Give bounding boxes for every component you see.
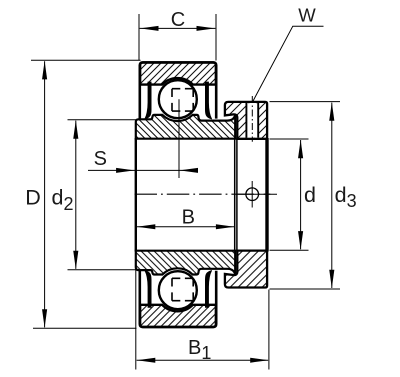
collar lower section: [225, 251, 267, 288]
centerline: [135, 193, 271, 195]
arrowhead C right: [197, 26, 216, 31]
arrowhead C left: [140, 26, 159, 31]
svg-text:d: d: [304, 183, 316, 207]
dimension d2: [68, 120, 137, 270]
svg-text:S: S: [94, 148, 107, 170]
arrowhead d3 top: [329, 102, 334, 121]
collar upper section: [225, 102, 267, 139]
arrowhead B left: [137, 224, 156, 229]
outer ring upper section: [140, 62, 216, 84]
dimension d: [270, 139, 309, 250]
svg-text:B: B: [182, 206, 195, 228]
dimension B1: [136, 269, 269, 370]
svg-text:D: D: [25, 185, 41, 209]
arrowhead D top: [42, 61, 47, 80]
collar recess face through bore: [236, 138, 238, 252]
collar right face through bore: [265, 138, 268, 252]
arrowhead B1 left: [137, 358, 156, 363]
arrowhead S right: [180, 168, 199, 173]
dimension d3: [270, 102, 341, 289]
arrowhead d3 bottom: [329, 270, 334, 289]
set screw channel: [246, 103, 259, 137]
arrowhead d bottom: [298, 231, 303, 250]
arrowhead S left: [116, 168, 135, 173]
dimension B: [137, 226, 235, 228]
arrowhead d top: [298, 140, 303, 159]
ball, seals, faces (bottom): [140, 270, 216, 327]
inner ring upper section: [136, 115, 235, 139]
svg-text:C: C: [171, 9, 185, 31]
arrowhead D bottom: [42, 309, 47, 328]
inner ring right face through bore: [234, 138, 236, 252]
arrowhead d2 bottom: [73, 251, 78, 269]
dimension C: [139, 14, 216, 61]
svg-text:W: W: [298, 4, 316, 25]
ball centre plane line (S extension): [178, 99, 180, 178]
arrowhead d2 top: [73, 120, 78, 139]
arrowhead B1 right: [250, 358, 269, 363]
dimension D: [31, 60, 141, 328]
ball, seals, faces (top): [140, 62, 216, 119]
arrowhead B right: [216, 224, 235, 229]
set screw axis: [251, 96, 253, 142]
dimension S: [88, 169, 197, 171]
inner ring left face through bore: [135, 138, 137, 252]
screw hole far side: circle with cross: [246, 188, 259, 201]
outer ring lower section: [140, 305, 216, 327]
inner ring lower section: [136, 251, 235, 275]
